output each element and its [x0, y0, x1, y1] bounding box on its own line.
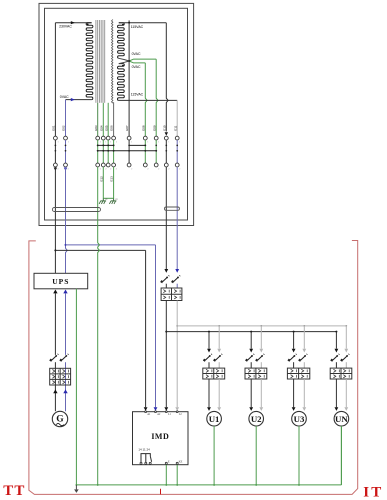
arrow into load U1 L1 [207, 407, 211, 411]
svg-text:U1: U1 [209, 414, 220, 424]
fuse terminal block X1 (generator feed) [50, 368, 71, 385]
junction node branch U2 L1 [250, 331, 252, 333]
wire branch UN L2 drop [345, 326, 347, 349]
svg-text:E08: E08 [141, 125, 145, 131]
svg-text:E04: E04 [99, 125, 103, 131]
svg-text:2: 2 [100, 169, 101, 171]
arrow branch UN L1 [335, 349, 339, 353]
wire E04 to earth bar [99, 167, 103, 198]
load U3 [292, 411, 307, 426]
fuse terminal block U2 [245, 368, 267, 379]
wire fuses to load UN [336, 379, 346, 407]
svg-text:1: 1 [179, 142, 180, 144]
arrow into load U1 L2 [217, 407, 221, 411]
fuse terminal block X2 (IT feed) [161, 288, 182, 301]
svg-text:2: 2 [168, 169, 169, 171]
junction node branch UN L2 [345, 325, 347, 327]
polarity dot primary winding [87, 24, 89, 26]
arrow branch U1 L2 [217, 349, 221, 353]
breaker branch U1 pole L1 [203, 354, 212, 362]
wire branch U1 L1 drop [208, 332, 210, 349]
terminal E11 [173, 125, 180, 170]
bus IT L2 distribution [177, 325, 346, 327]
junction node branch U3 L2 [303, 325, 305, 327]
arrow IMD A2 input [154, 407, 158, 411]
svg-text:230VAC: 230VAC [59, 24, 72, 28]
breaker branch U3 pole L1 [287, 354, 296, 362]
arrow branch U1 L1 [207, 349, 211, 353]
terminal E01 [52, 125, 59, 170]
label TT earthing system [3, 483, 25, 499]
svg-text:2: 2 [158, 169, 159, 171]
svg-text:E05: E05 [104, 125, 108, 131]
arrow into load U3 L2 [302, 407, 306, 411]
enclosure transformer cabinet (double border) [39, 3, 194, 225]
value label 0VAC lower lead [132, 65, 141, 69]
arrow IMD L1 input [164, 407, 168, 411]
fuse terminal block U1 [203, 368, 225, 379]
wire load U2 earth to bus [255, 426, 257, 485]
svg-text:KE: KE [179, 460, 183, 463]
svg-text:0VAC: 0VAC [132, 52, 141, 56]
breaker Q2 pole L1 [160, 275, 169, 283]
wire E10 secondary live exit [165, 167, 167, 226]
svg-text:TT: TT [3, 483, 25, 499]
value label 230VAC [59, 24, 72, 28]
junction node branch UN L1 corner [335, 331, 337, 333]
wire primary 0VAC return (bottom terminal to E02) [66, 100, 92, 137]
svg-text:0VAC: 0VAC [60, 95, 69, 99]
wire secondary 115VAC lower terminal to E11 drop [119, 100, 177, 136]
svg-text:14 11 24: 14 11 24 [138, 447, 150, 451]
wire UPS earth down to earth bus [75, 289, 77, 485]
arrow flow 0VAC into primary [71, 98, 75, 101]
wire branch U2 L2 drop [260, 326, 262, 349]
generator G [52, 411, 67, 426]
wire branch U3 L2 drop [303, 326, 305, 349]
svg-text:U3: U3 [294, 414, 305, 424]
arrow IT feed L1 [164, 269, 168, 273]
svg-text:2: 2 [105, 169, 106, 171]
node measurement tap on 115VAC (vertical to E07) [128, 20, 130, 136]
wire fuse block through N [65, 368, 67, 411]
svg-text:UN: UN [335, 414, 348, 424]
svg-text:2: 2 [68, 169, 69, 171]
arrow IMD A1 input [144, 407, 148, 411]
transformer T1 secondary winding upper (115VAC-0VAC) [118, 23, 125, 59]
wire breaker to fuse block N [65, 362, 67, 368]
value label 115VAC upper [131, 25, 144, 29]
arrow UPS output N [63, 290, 67, 294]
link terminals E07-E08 [129, 145, 146, 147]
svg-text:115VAC: 115VAC [131, 25, 144, 29]
frame system boundary TT/IT (red) [29, 241, 358, 495]
load U1 [207, 411, 222, 426]
svg-text:2: 2 [110, 169, 111, 171]
svg-text:1: 1 [68, 142, 69, 144]
arrow into load U2 L2 [259, 407, 263, 411]
svg-text:E: E [168, 460, 170, 463]
wire IT L2 down to IMD L2 [176, 301, 178, 408]
wire UN earth corner [340, 426, 342, 485]
ground chassis PE2 [109, 198, 118, 204]
svg-text:1: 1 [147, 142, 148, 144]
terminal E04 [99, 125, 106, 170]
junction node branch U1 L2 [218, 325, 220, 327]
junction node U2 earth [255, 484, 257, 486]
wire load UN earth to bus [340, 426, 342, 485]
wire E06 to earth bar [110, 167, 114, 198]
wire N branch to IMD A2 [66, 245, 156, 407]
wire core/shield earthing taps down to terminals E03-E06 [98, 102, 114, 136]
wire breaker to fuses UN [336, 362, 346, 368]
wire E03 protective earth down [97, 167, 99, 226]
junction node IMD KE earth [176, 484, 178, 486]
svg-text:E09: E09 [152, 125, 156, 131]
wire UPS N down to generator breaker [65, 293, 67, 355]
junction node branch U2 L2 [260, 325, 262, 327]
svg-text:IT: IT [363, 484, 383, 500]
fuse terminal block UN [330, 368, 352, 379]
wire breaker to fuses U2 [251, 362, 261, 368]
wire fuses to load U3 [294, 379, 305, 407]
wire IT L1 down to IMD L1 [165, 301, 167, 408]
arrow into load UN L1 [335, 407, 339, 411]
wire breaker to fuse block IT L2 [176, 284, 178, 288]
wire L feed cabinet to UPS [54, 226, 56, 274]
wire IMD KE to earth bus [176, 465, 178, 485]
svg-text:1: 1 [168, 142, 169, 144]
junction node IT L1 bus [165, 331, 167, 333]
transformer T1 primary winding [86, 23, 93, 100]
arrow into terminal E10 [165, 132, 168, 135]
wire UPS L down to generator breaker [54, 293, 56, 355]
wire E02 continuation to cabinet exit [64, 167, 67, 226]
breaker Q1 pole L [49, 354, 58, 362]
svg-text:E11: E11 [173, 125, 177, 130]
bus protective earth bottom [76, 484, 341, 486]
value label 115VAC lower [131, 93, 144, 97]
value label 0VAC upper lead [132, 52, 141, 56]
svg-text:1: 1 [158, 142, 159, 144]
terminal E06 [110, 125, 117, 170]
arrow IMD L2 input [175, 407, 179, 411]
svg-text:PE: PE [105, 199, 108, 201]
junction node branch U1 L1 [208, 331, 210, 333]
breaker branch U3 pole L2 [298, 354, 307, 362]
node boundary tick [160, 489, 162, 495]
label IT earthing system [363, 484, 383, 500]
svg-text:1: 1 [105, 142, 106, 144]
cable marker primary harness [52, 208, 100, 212]
fuse terminal block U3 [287, 368, 309, 379]
arrow into load U3 L1 [292, 407, 296, 411]
svg-text:E02: E02 [62, 125, 66, 131]
junction node E03 earth on bus [97, 484, 99, 486]
value label 0VAC primary [60, 95, 69, 99]
cable marker secondary harness [165, 207, 180, 210]
svg-text:2: 2 [147, 169, 148, 171]
wire secondary live to IT bus [165, 226, 167, 270]
terminal E10 [162, 125, 169, 170]
svg-text:PE: PE [116, 199, 119, 201]
wire fuses to load U1 [209, 379, 219, 407]
wire branch U2 L1 drop [250, 332, 252, 349]
arrow branch U3 L1 [292, 349, 296, 353]
junction node U1 earth [213, 484, 215, 486]
terminal E05 [104, 125, 111, 170]
transformer T1 secondary winding lower (0VAC-115VAC) [117, 64, 124, 101]
bus IT L1 distribution [166, 331, 336, 333]
link bus terminals E03-E09 (lower tie) [97, 150, 157, 152]
wire load U3 earth to bus [298, 426, 300, 485]
wire primary 230VAC feed (top terminal, left loop down to terminal E01) [55, 23, 91, 137]
wire breaker to fuse block L [54, 362, 56, 368]
wire L branch to IMD A1 [55, 250, 145, 407]
arrow branch U2 L1 [249, 349, 253, 353]
breaker Q2 pole L2 [171, 275, 180, 283]
svg-text:E03: E03 [94, 125, 98, 131]
svg-text:1: 1 [116, 142, 117, 144]
terminal E08 [141, 125, 148, 170]
wire load U1 earth to bus [213, 426, 215, 485]
wire breaker to fuses U1 [209, 362, 219, 368]
imd insulation monitoring device U2 [133, 411, 189, 465]
breaker branch U1 pole L2 [213, 354, 222, 362]
junction node N branch [65, 244, 67, 246]
arrow branch U3 L2 [302, 349, 306, 353]
svg-text:2: 2 [131, 169, 132, 171]
breaker branch UN pole L2 [340, 354, 349, 362]
svg-text:0VAC: 0VAC [132, 65, 141, 69]
wire branch U1 L2 drop [218, 326, 220, 349]
wire E01 continuation to cabinet exit [54, 167, 57, 226]
wire E11 secondary return exit [176, 167, 178, 226]
breaker Q1 pole N [59, 354, 68, 362]
junction node UPS earth on bus [75, 484, 77, 486]
svg-text:E10: E10 [162, 125, 166, 131]
wire secondary 115VAC upper terminal to E10 drop [119, 23, 168, 132]
svg-text:2: 2 [179, 169, 180, 171]
terminal E03 [94, 125, 101, 170]
breaker branch UN pole L1 [330, 354, 339, 362]
arrow into generator N [63, 389, 67, 393]
electrostatic shield (zigzag screen) [112, 20, 113, 104]
link bus terminals E03-E06 (earth group tie) [97, 145, 115, 147]
svg-text:E13: E13 [110, 176, 114, 182]
svg-text:IMD: IMD [151, 432, 169, 441]
transformer core laminations [96, 20, 105, 103]
arrow into load UN L2 [344, 407, 348, 411]
arrow into load U2 L1 [249, 407, 253, 411]
wire fuses to load U2 [251, 379, 261, 407]
wire E03 earth continuation to main earth bus [98, 226, 100, 485]
svg-text:E12: E12 [99, 176, 103, 182]
terminal E07 [125, 125, 132, 170]
arrow branch UN L2 [344, 349, 348, 353]
wire branch U3 L1 drop [293, 332, 295, 349]
arrow branch U2 L2 [259, 349, 263, 353]
wire branch UN L1 drop [335, 332, 337, 349]
load U2 [249, 411, 264, 426]
svg-text:2: 2 [58, 169, 59, 171]
wire breaker to fuses U3 [294, 362, 305, 368]
wire secondary 0VAC leads crossing (X) to terminals E08/E09 [119, 58, 158, 136]
wire breaker to fuse block IT L1 [165, 284, 167, 288]
wire N feed cabinet to UPS [66, 226, 68, 274]
wire secondary return to IT bus [176, 226, 178, 270]
svg-text:1: 1 [110, 142, 111, 144]
arrow IT feed L2 [175, 269, 179, 273]
svg-text:115VAC: 115VAC [131, 93, 144, 97]
wire IMD E to earth bus [165, 465, 167, 485]
svg-text:2: 2 [116, 169, 117, 171]
polarity dot secondary lower [122, 65, 124, 67]
earth bar inside cabinet [103, 197, 113, 199]
terminal E02 [62, 125, 69, 170]
terminal E09 [152, 125, 159, 170]
polarity dot secondary upper [122, 24, 124, 26]
breaker branch U2 pole L2 [255, 354, 264, 362]
arrow into generator L [53, 389, 57, 393]
junction node branch U3 L1 [293, 331, 295, 333]
svg-text:UPS: UPS [52, 277, 69, 286]
junction node U3 earth [298, 484, 300, 486]
arrow UPS output L [53, 290, 57, 294]
junction node IT L2 bus [176, 325, 178, 327]
wire fuse block through L [54, 368, 56, 411]
svg-text:1: 1 [100, 142, 101, 144]
arrow flow 230VAC into primary [71, 21, 75, 24]
svg-text:E06: E06 [110, 125, 114, 131]
svg-text:1: 1 [58, 142, 59, 144]
earth electrode arrow to hull [74, 485, 79, 493]
svg-text:U2: U2 [251, 414, 262, 424]
ups U1 power supply box [34, 273, 88, 289]
svg-text:E07: E07 [125, 125, 129, 131]
svg-text:E01: E01 [52, 125, 56, 131]
ground chassis PE1 [99, 198, 108, 204]
junction node L branch [54, 249, 56, 251]
load UN [334, 411, 349, 426]
breaker branch U2 pole L1 [245, 354, 254, 362]
svg-text:1: 1 [131, 142, 132, 144]
junction node IMD E earth [165, 484, 167, 486]
junction 0VAC crossover [128, 60, 130, 62]
